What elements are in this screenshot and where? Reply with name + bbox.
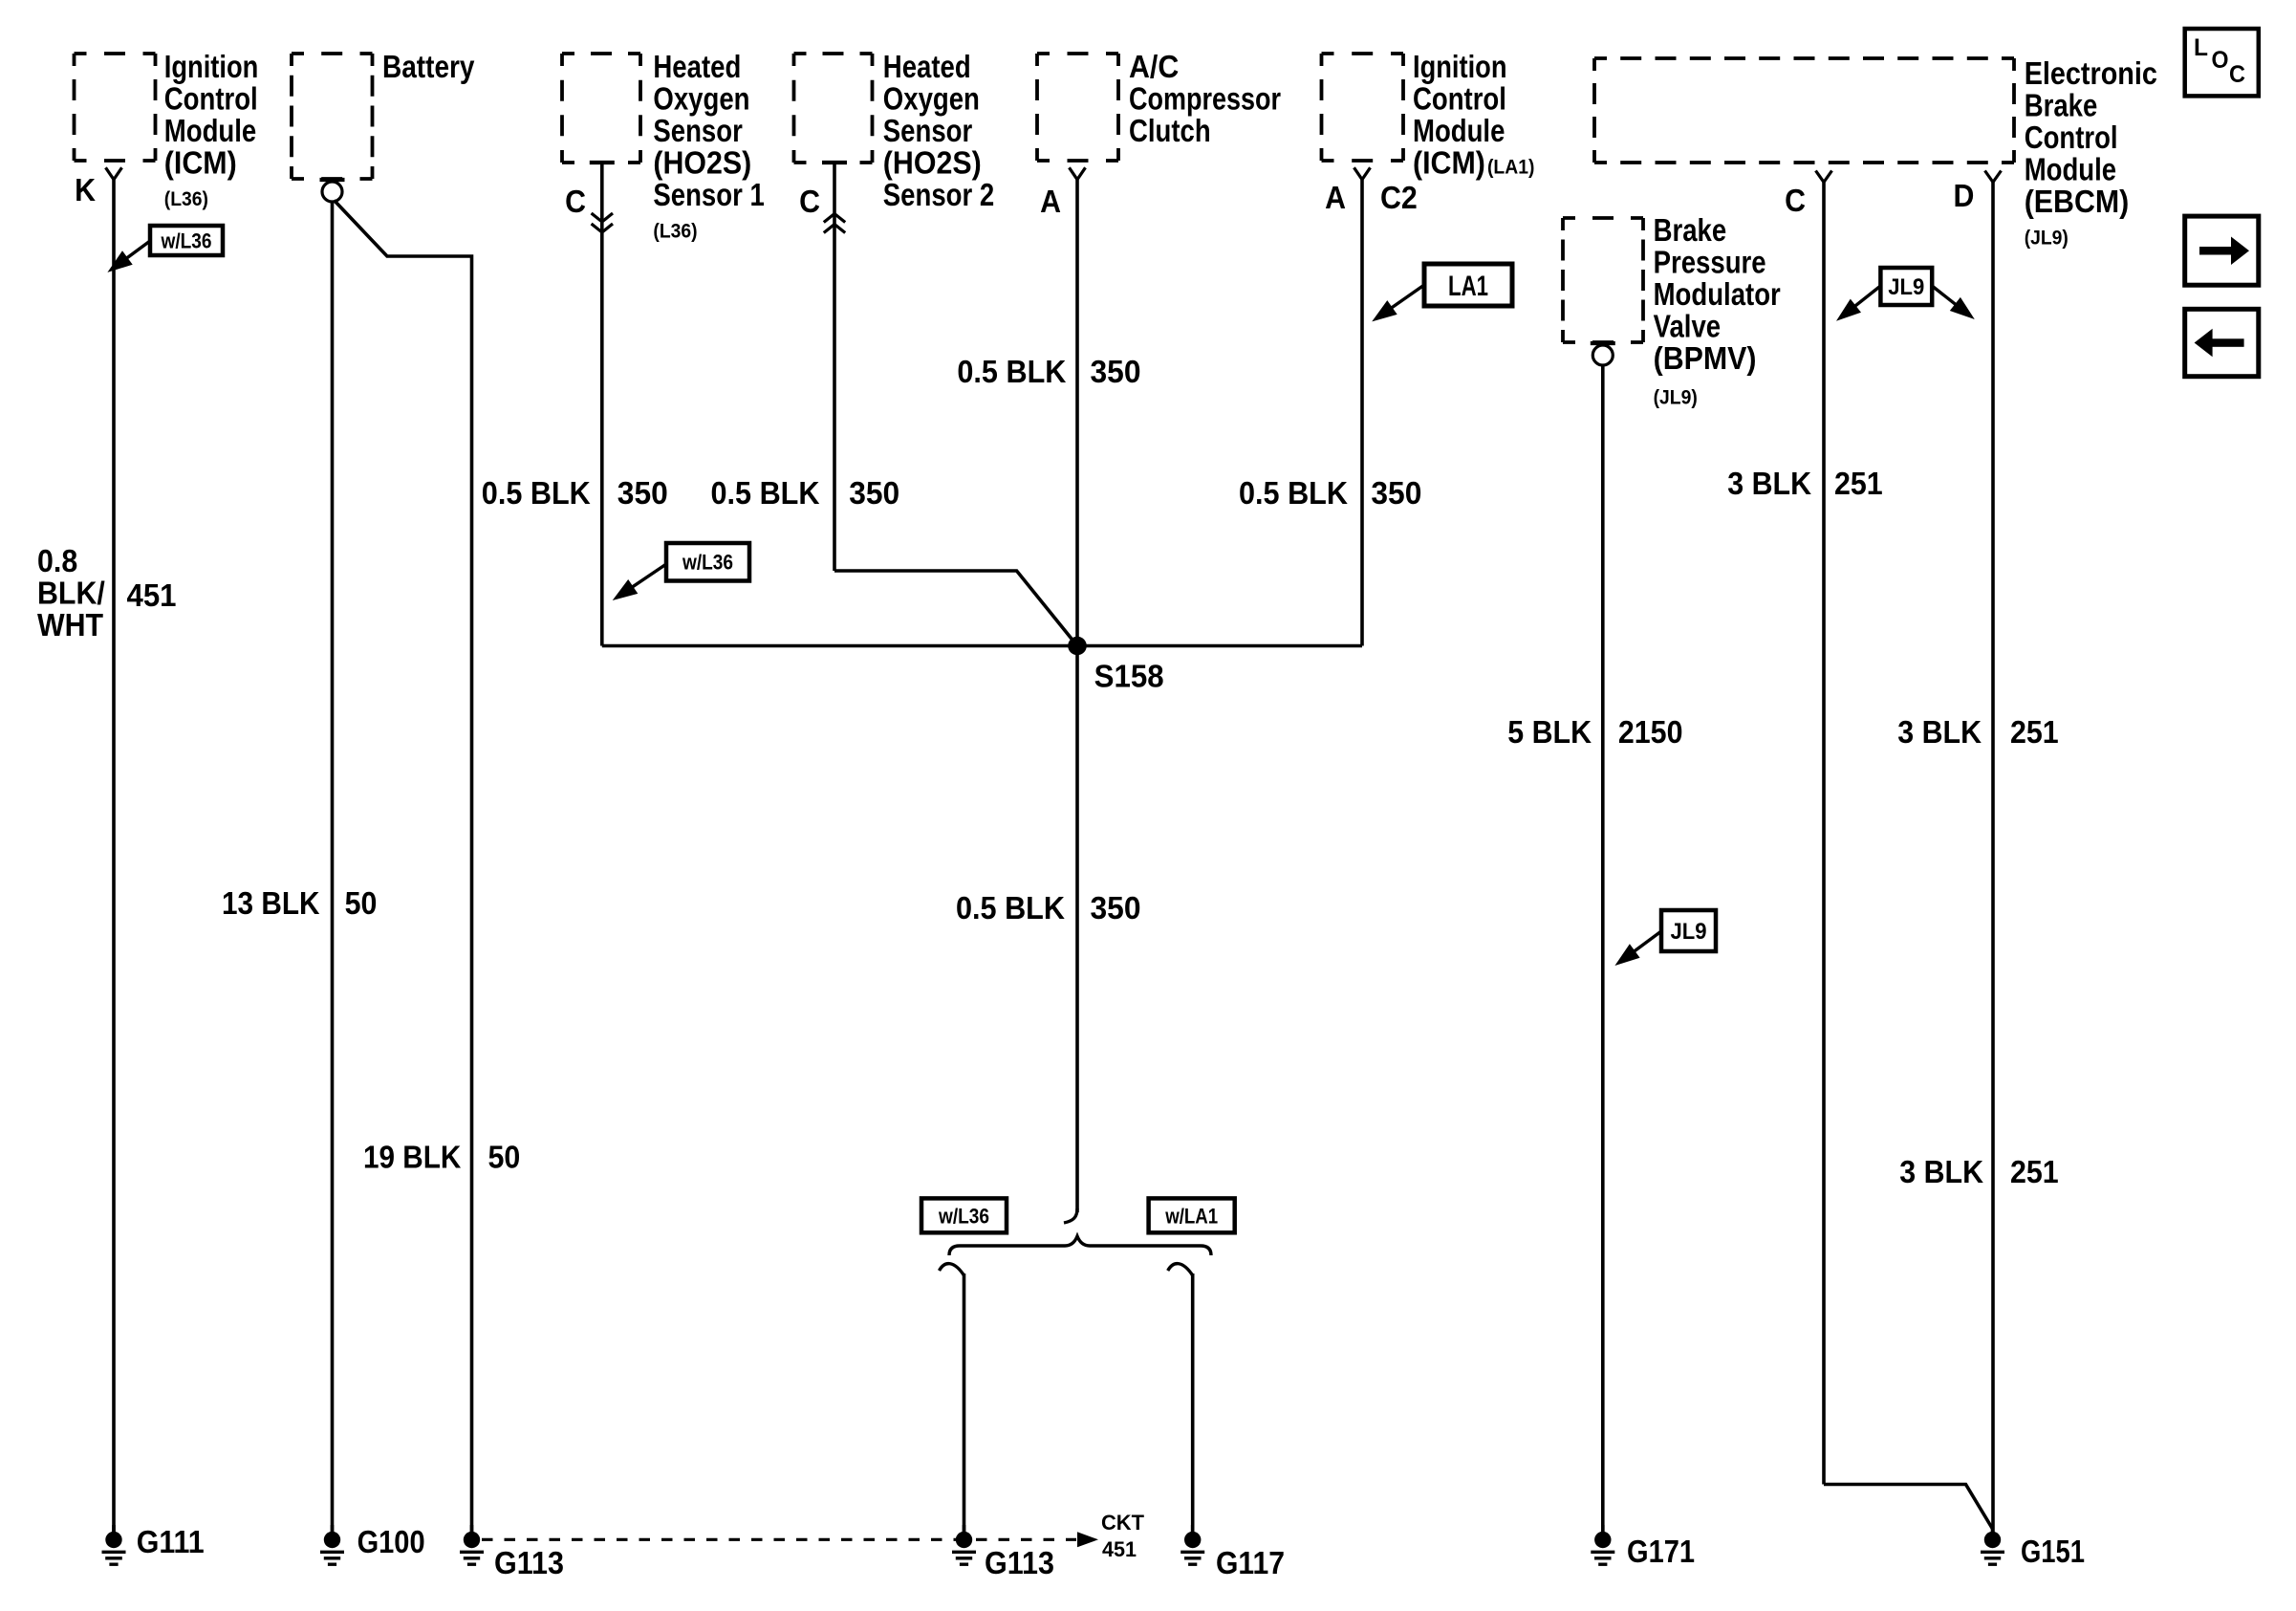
- svg-text:5 BLK: 5 BLK: [1507, 714, 1592, 750]
- svg-text:D: D: [1954, 178, 1975, 213]
- svg-text:Module: Module: [164, 113, 256, 148]
- svg-text:Sensor: Sensor: [883, 113, 973, 148]
- svg-text:K: K: [75, 172, 96, 207]
- svg-text:Control: Control: [2025, 120, 2118, 155]
- svg-text:G111: G111: [137, 1524, 205, 1559]
- svg-text:LA1: LA1: [1448, 271, 1488, 302]
- svg-text:A/C: A/C: [1129, 49, 1179, 84]
- svg-text:C: C: [565, 184, 586, 219]
- svg-text:w/L36: w/L36: [682, 551, 733, 575]
- svg-text:0.5 BLK: 0.5 BLK: [957, 354, 1066, 389]
- svg-text:A: A: [1040, 184, 1061, 219]
- svg-text:Heated: Heated: [883, 49, 971, 84]
- svg-text:G113: G113: [985, 1545, 1054, 1580]
- svg-text:C: C: [2229, 61, 2245, 88]
- svg-text:Control: Control: [164, 81, 258, 117]
- svg-text:Pressure: Pressure: [1654, 245, 1766, 280]
- svg-text:350: 350: [1091, 890, 1141, 925]
- svg-text:0.8: 0.8: [37, 543, 77, 578]
- svg-text:Module: Module: [1413, 113, 1505, 148]
- svg-text:C2: C2: [1380, 180, 1418, 215]
- svg-text:451: 451: [1102, 1537, 1137, 1561]
- svg-text:19 BLK: 19 BLK: [363, 1140, 461, 1175]
- svg-text:Electronic: Electronic: [2025, 55, 2157, 91]
- svg-text:Heated: Heated: [653, 49, 741, 84]
- svg-text:C: C: [799, 184, 820, 219]
- svg-text:0.5 BLK: 0.5 BLK: [711, 475, 820, 511]
- svg-text:Module: Module: [2025, 152, 2116, 187]
- svg-text:Clutch: Clutch: [1129, 113, 1211, 148]
- svg-text:L: L: [2194, 34, 2208, 61]
- svg-text:w/L36: w/L36: [938, 1204, 989, 1228]
- svg-text:WHT: WHT: [37, 607, 103, 642]
- svg-text:Ignition: Ignition: [164, 49, 258, 84]
- svg-text:CKT: CKT: [1101, 1511, 1145, 1535]
- svg-text:S158: S158: [1094, 659, 1164, 694]
- svg-text:350: 350: [1371, 475, 1421, 511]
- svg-text:13 BLK: 13 BLK: [222, 885, 320, 921]
- svg-text:Sensor 2: Sensor 2: [883, 177, 994, 212]
- svg-text:(JL9): (JL9): [1654, 387, 1698, 409]
- svg-text:251: 251: [2010, 1154, 2059, 1189]
- svg-text:(BPMV): (BPMV): [1654, 340, 1757, 376]
- svg-text:G151: G151: [2021, 1534, 2085, 1569]
- svg-text:Modulator: Modulator: [1654, 276, 1781, 312]
- svg-text:0.5 BLK: 0.5 BLK: [956, 890, 1065, 925]
- svg-text:G171: G171: [1627, 1534, 1695, 1569]
- svg-text:G117: G117: [1216, 1545, 1285, 1580]
- svg-text:Ignition: Ignition: [1413, 49, 1507, 84]
- svg-text:BLK/: BLK/: [37, 576, 105, 611]
- svg-text:2150: 2150: [1618, 714, 1683, 750]
- svg-text:Compressor: Compressor: [1129, 81, 1281, 117]
- svg-text:Battery: Battery: [382, 49, 475, 84]
- svg-text:251: 251: [2010, 714, 2059, 750]
- svg-text:G100: G100: [357, 1524, 425, 1559]
- svg-text:350: 350: [617, 475, 668, 511]
- svg-text:w/L36: w/L36: [161, 229, 212, 252]
- svg-text:(JL9): (JL9): [2025, 228, 2069, 250]
- svg-text:3 BLK: 3 BLK: [1727, 466, 1811, 501]
- svg-text:JL9: JL9: [1888, 274, 1924, 300]
- svg-text:(L36): (L36): [653, 221, 697, 243]
- svg-text:50: 50: [345, 885, 378, 921]
- svg-text:O: O: [2212, 47, 2229, 74]
- svg-text:Oxygen: Oxygen: [653, 81, 749, 117]
- svg-text:Brake: Brake: [2025, 88, 2098, 123]
- svg-text:JL9: JL9: [1671, 919, 1707, 945]
- svg-text:(ICM): (ICM): [1413, 145, 1485, 181]
- svg-text:350: 350: [1091, 354, 1141, 389]
- svg-text:350: 350: [849, 475, 899, 511]
- svg-text:G113: G113: [494, 1545, 564, 1580]
- svg-text:50: 50: [488, 1140, 521, 1175]
- svg-text:(ICM): (ICM): [164, 145, 237, 181]
- svg-text:Brake: Brake: [1654, 212, 1727, 248]
- svg-text:C: C: [1785, 183, 1806, 218]
- svg-text:Valve: Valve: [1654, 309, 1722, 344]
- svg-text:0.5 BLK: 0.5 BLK: [482, 475, 591, 511]
- svg-text:w/LA1: w/LA1: [1164, 1204, 1218, 1228]
- svg-text:(EBCM): (EBCM): [2025, 184, 2130, 219]
- svg-text:A: A: [1325, 180, 1346, 215]
- svg-text:(LA1): (LA1): [1487, 157, 1534, 179]
- svg-text:(HO2S): (HO2S): [883, 145, 982, 181]
- svg-text:3 BLK: 3 BLK: [1897, 714, 1982, 750]
- svg-text:3 BLK: 3 BLK: [1899, 1154, 1983, 1189]
- svg-text:251: 251: [1834, 466, 1883, 501]
- svg-text:Control: Control: [1413, 81, 1506, 117]
- svg-text:(L36): (L36): [164, 188, 208, 210]
- svg-text:Sensor 1: Sensor 1: [653, 177, 764, 212]
- svg-text:451: 451: [127, 577, 177, 613]
- svg-text:0.5 BLK: 0.5 BLK: [1239, 475, 1348, 511]
- svg-text:Oxygen: Oxygen: [883, 81, 980, 117]
- svg-text:(HO2S): (HO2S): [653, 145, 751, 181]
- svg-text:Sensor: Sensor: [653, 113, 743, 148]
